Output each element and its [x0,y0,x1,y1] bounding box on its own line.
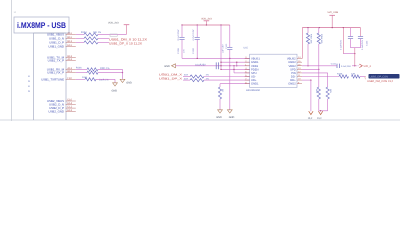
svg-text:R157 1K5: R157 1K5 [309,34,312,44]
svg-text:VBUS2: VBUS2 [287,58,296,61]
IC pin DD- [297,76,302,78]
wire PDEN row [221,68,250,70]
wire 236.8 vertical [236,62,238,66]
offsheet arrow down 1 [309,111,313,114]
svg-text:USB2_DP_CON: USB2_DP_CON [370,76,389,79]
svg-text:A11: A11 [67,32,72,35]
svg-text:VDD1: VDD1 [251,65,259,68]
wire TXRTUNE to gnd [96,78,115,80]
wire R159 to label [360,76,365,78]
wire 354.8 down [354,48,356,66]
component box U_iMX8MP right edge [65,33,67,120]
resistor R104 [84,33,98,36]
wire cap bottoms join [351,47,361,49]
svg-text:0.1uF/16V: 0.1uF/16V [361,39,364,50]
svg-text:VDD_3V3: VDD_3V3 [108,22,119,25]
svg-text:USB1_TXRTUNE: USB1_TXRTUNE [41,77,64,81]
svg-text:C140: C140 [225,43,228,49]
rail 5V0 wire [302,27,360,29]
svg-text:C143: C143 [366,40,369,46]
svg-text:10V: 10V [183,49,186,53]
svg-text:USB2_DM_CON 15,2: USB2_DM_CON 15,2 [367,80,394,83]
capacitor C142 [350,28,352,37]
wire R156 down [318,69,320,87]
wire DD- to R158 [302,76,339,78]
svg-text:1K5: 1K5 [315,89,318,94]
svg-text:8: 8 [28,75,30,78]
capacitor C10B inline plates [215,62,217,69]
wire R152 to gnd [219,99,221,110]
svg-text:15,2: 15,2 [308,117,313,120]
node RX join [122,72,123,73]
IC pin GND2 [297,83,302,85]
wire DP to R150 [183,79,190,81]
svg-text:8: 8 [28,85,30,88]
svg-text:1K: 1K [221,89,224,92]
power symbol VDD_3V3 at VBUS [124,24,130,26]
svg-text:GND: GND [229,116,235,119]
svg-text:VDD2: VDD2 [289,65,297,68]
svg-text:0.1uF/25V: 0.1uF/25V [177,29,180,40]
svg-text:(: ( [365,75,367,79]
svg-text:200R 1%: 200R 1% [99,78,108,81]
svg-text:B12: B12 [67,40,72,43]
node rail-c138 [181,24,182,25]
svg-text:B12: B12 [67,70,72,73]
IC pin DD+ [297,79,302,81]
component box U_iMX8MP left edge [33,33,35,120]
page frame bottom border line [0,119,400,121]
svg-text:GND: GND [126,82,132,85]
resistor R105 [84,37,98,40]
node rail-c139 [197,24,198,25]
node c139 bottom [197,58,198,59]
svg-text:GND1: GND1 [251,61,259,64]
svg-text:B: B [28,90,30,93]
svg-text:USB1_GND: USB1_GND [48,44,64,48]
svg-text:15,2: 15,2 [317,117,322,120]
resistor R158 [339,75,348,78]
offsheet arrow 5V0_2 [359,64,362,68]
no-erc marker [110,34,117,36]
wire 234 to SPU [233,65,234,66]
IC pin VBUS2 [297,58,302,60]
wire vertical 221 [220,25,222,69]
svg-text:12: 12 [14,11,17,14]
resistor R151 [85,78,96,81]
wire SPD row [302,68,319,70]
svg-text:USB1_RX_P: USB1_RX_P [47,71,64,75]
ground arrow below R152 [218,110,223,113]
node 221 mid [220,65,221,66]
wire VBUS2 up [301,28,303,59]
IC pin SPD [297,68,302,70]
svg-text:SPD: SPD [290,68,296,71]
resistor R147 [87,68,98,71]
node 236.8 top [236,62,237,63]
wire R149 to UD- [204,76,250,78]
svg-text:5V0_USB: 5V0_USB [328,11,339,14]
wire RX_M to gnd [98,68,123,70]
node 229.8 cross [229,65,230,66]
svg-text:1K5: 1K5 [329,89,332,94]
svg-text:ADUM4160: ADUM4160 [246,89,261,92]
svg-text:1uF/16V: 1uF/16V [221,44,224,53]
title box [14,17,69,33]
svg-text:USB1_DP_X 10 11,2X: USB1_DP_X 10 11,2X [109,42,142,46]
node rail-pwr [206,24,207,25]
capacitor C140 [229,25,231,47]
svg-text:GND: GND [112,90,118,93]
resistor R106 [84,41,98,44]
wire PIN row [302,72,328,74]
svg-text:R104: R104 [81,31,87,34]
wire DM to R149 [183,76,190,78]
node rail r156 [319,27,320,28]
svg-text:B11: B11 [67,36,72,39]
wire 229.5 vertical to gnd [229,58,231,109]
IC pin PDEN [245,68,250,70]
svg-text:A13: A13 [67,58,72,61]
svg-text:E11: E11 [67,44,72,47]
svg-text:USB1_DP_X: USB1_DP_X [159,76,182,80]
wire bridge [343,53,355,55]
IC pin UD+ [245,79,250,81]
capacitor C138 [181,25,183,37]
svg-text:USB1_TX_P: USB1_TX_P [48,59,64,63]
node rail-221 [220,24,221,25]
resistor R161 vertical [326,87,329,99]
rail VDD_3V3 wire [182,24,230,26]
wire R150 to UD+ [204,79,250,81]
wire C141 to node [352,65,355,67]
IC pin GND2 [297,61,302,63]
svg-text:5V0_2: 5V0_2 [364,65,372,68]
node 236.8 bottom [236,65,237,66]
wire GND1 row [221,61,250,63]
resistor R148 [87,71,98,74]
svg-text:R146: R146 [76,67,82,70]
ground arrow mid right [227,110,232,113]
node DD+ drop [310,79,311,80]
svg-text:UD+: UD+ [251,79,257,82]
svg-text:0.1uF,25V: 0.1uF,25V [341,65,351,68]
node rail 343 [343,27,344,28]
wire RX_P to gnd [98,72,123,74]
IC pin VDD2 [297,65,302,67]
capacitor C143 [360,28,362,37]
IC pin GND1 [245,83,250,85]
svg-text:B: B [28,80,30,83]
wire GND1 to R152 [220,83,250,85]
IC U15 body [250,54,297,87]
svg-text:i.MX8MP - USB: i.MX8MP - USB [17,21,66,30]
svg-text:E13: E13 [67,109,72,112]
component box U_iMX8MP top edge [34,32,67,34]
resistor R149 [190,75,204,78]
wire DD+ down to offsheet [310,80,312,111]
node 221-gnd1 [220,62,221,63]
wire GND to VDD1 [176,65,250,67]
capacitor C139 [196,25,198,37]
svg-text:C139: C139 [192,48,195,54]
svg-text:PIN: PIN [291,72,296,75]
svg-text:USB2_GND: USB2_GND [48,110,64,114]
IC pin VBUS1 [245,58,250,60]
IC pin UD- [245,76,250,78]
svg-text:DD-: DD- [291,76,296,79]
svg-text:E10: E10 [67,99,72,102]
resistor R152 vertical [218,87,221,99]
page frame left border line [11,0,13,121]
svg-text:F10: F10 [67,77,72,80]
net label block USB2_DP highlighted [369,74,400,79]
ground RX arrow [120,79,125,82]
svg-text:R156 1K5: R156 1K5 [320,34,323,44]
ground TXRTUNE arrow [113,83,118,86]
wire caps common to VBUS1 [182,57,250,59]
svg-text:R151: R151 [82,76,88,79]
svg-text:PDEN: PDEN [251,68,259,71]
svg-text:0.1uF/16V: 0.1uF/16V [339,39,342,50]
wire D_N to label [98,37,109,39]
resistor R160 vertical [317,87,320,99]
resistor R150 [190,79,204,82]
svg-text:VBUS1: VBUS1 [251,58,260,61]
node R156 to SPD [318,69,319,70]
node rail pwr2 [332,27,333,28]
capacitor C141 plates [336,64,338,68]
IC pin VDD1 [245,65,250,67]
svg-text:VDD_3V3: VDD_3V3 [201,18,212,21]
node bridge [354,53,355,54]
wire 5V0_2 branch [354,65,355,66]
svg-text:GND2: GND2 [288,61,296,64]
svg-text:GND: GND [216,116,222,119]
IC pin SPU [245,72,250,74]
resistor R157 vertical [307,28,309,33]
offsheet arrow down 2 [318,111,322,114]
wire VBUS to power [98,33,127,35]
node rail r157 [307,27,308,28]
wire VDD2 cap row [302,65,337,67]
svg-text:C138: C138 [177,48,180,54]
svg-text:C141: C141 [331,63,337,66]
svg-text:SPU: SPU [251,72,257,75]
svg-text:0.1uF,25V: 0.1uF,25V [195,63,206,66]
node R157 to VDD2 [307,65,308,66]
wire PIN down [327,73,329,87]
node 229.8 top [229,58,230,59]
resistor R159 [352,75,361,78]
svg-text:DD+: DD+ [290,79,296,82]
svg-text:UD-: UD- [251,76,256,79]
wire 343 vertical [342,28,344,54]
svg-text:GND: GND [164,65,170,68]
IC pin GND1 [245,61,250,63]
resistor R156 vertical [318,28,320,33]
IC pin PIN [297,72,302,74]
svg-text:GND2: GND2 [288,83,296,86]
svg-text:U15: U15 [244,47,249,50]
svg-text:GND1: GND1 [251,83,259,86]
node 221 pden [220,69,221,70]
svg-text:4.7uF/10V: 4.7uF/10V [192,29,195,40]
wire join bottom [319,110,328,112]
wire DD+ row to offsheet [302,79,311,81]
wire D_P to label [98,41,109,43]
node join bottom [320,110,321,111]
